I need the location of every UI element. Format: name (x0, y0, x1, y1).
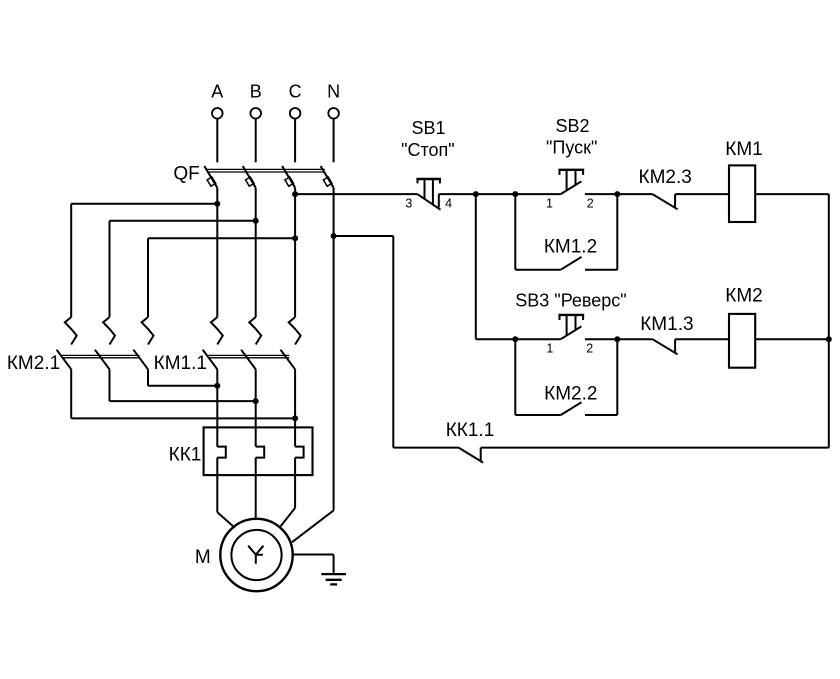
svg-text:1: 1 (546, 197, 553, 211)
svg-text:SB3 "Реверс": SB3 "Реверс" (515, 291, 626, 311)
svg-text:B: B (250, 82, 262, 102)
svg-text:КМ1.3: КМ1.3 (640, 314, 693, 335)
svg-text:SB2: SB2 (555, 116, 589, 136)
svg-text:"Стоп": "Стоп" (401, 140, 455, 160)
svg-text:QF: QF (173, 163, 199, 184)
svg-text:C: C (289, 82, 302, 102)
svg-text:"Пуск": "Пуск" (546, 138, 597, 158)
svg-text:N: N (327, 82, 340, 102)
svg-text:КМ1.2: КМ1.2 (544, 236, 597, 257)
svg-text:КМ2.2: КМ2.2 (544, 384, 597, 405)
svg-text:2: 2 (586, 342, 593, 356)
svg-text:КМ2: КМ2 (725, 286, 762, 307)
svg-text:2: 2 (587, 197, 594, 211)
svg-text:КК1: КК1 (169, 444, 202, 465)
svg-text:3: 3 (405, 197, 412, 211)
svg-text:1: 1 (546, 342, 553, 356)
svg-text:М: М (195, 547, 211, 568)
svg-text:КМ2.3: КМ2.3 (639, 167, 692, 188)
svg-text:КМ2.1: КМ2.1 (7, 353, 60, 374)
svg-text:4: 4 (445, 197, 452, 211)
svg-text:КК1.1: КК1.1 (446, 420, 495, 441)
svg-text:A: A (211, 82, 223, 102)
svg-text:КМ1.1: КМ1.1 (154, 353, 207, 374)
svg-text:SB1: SB1 (411, 118, 445, 138)
svg-text:КМ1: КМ1 (725, 139, 762, 160)
